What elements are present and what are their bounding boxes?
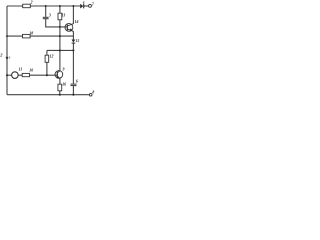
wire transistor-19 emitter to resistor-16 (59, 78, 61, 84)
wire diode-15 to capacitor-17 (72, 43, 74, 83)
wire left rail (6, 6, 8, 95)
input arrow on left rail (6, 57, 9, 60)
wire row2 rail (7, 35, 73, 37)
svg-text:15: 15 (76, 39, 80, 43)
svg-text:9: 9 (63, 67, 65, 71)
wire resistor-13 column from top rail down to transistor-19 collector (59, 6, 61, 71)
junction mid row / emitter column (72, 49, 74, 51)
capacitor 17 plates (71, 84, 77, 86)
capacitor 3 plates (43, 17, 49, 18)
wire capacitor-3 branch top lead (45, 6, 47, 17)
wire mid feedback row (47, 49, 74, 51)
svg-text:14: 14 (75, 20, 79, 24)
junction base wire / resistor 13 column (59, 26, 61, 28)
wire resistor-12 top stub (46, 50, 48, 55)
svg-text:10: 10 (29, 69, 33, 73)
wire transistor-14 emitter to diode-15 (72, 31, 74, 39)
transistor 19 emitter arrow (57, 75, 60, 78)
junction top rail / collector 14 (72, 5, 74, 7)
resistor 18 (row2) (23, 34, 31, 38)
svg-text:2: 2 (0, 52, 3, 57)
svg-text:2: 2 (30, 1, 33, 5)
wire diode-4 to terminal-7 (84, 5, 89, 7)
svg-text:12: 12 (50, 55, 54, 59)
wire resistor-10 to transistor-19 base (30, 74, 58, 76)
wire transducer-11 to resistor-10 (18, 74, 22, 76)
diode 4 (80, 3, 84, 8)
wire bottom rail (7, 94, 90, 96)
terminal 8 (89, 93, 92, 96)
svg-text:8: 8 (92, 91, 94, 95)
svg-text:3: 3 (48, 14, 51, 18)
transistor 19 (55, 71, 63, 79)
terminal 7 (89, 4, 92, 7)
junction bottom rail / resistor 16 (59, 94, 61, 96)
resistor 12 (45, 55, 49, 62)
wire capacitor-3 bottom lead and base wire to transistor-14 (46, 19, 68, 27)
wire transistor-14 collector to top rail (72, 6, 74, 24)
svg-text:16: 16 (62, 82, 66, 86)
svg-text:1: 1 (9, 55, 11, 59)
wire resistor-12 bottom stub (46, 62, 48, 75)
wire input stub from left rail to transducer-11 (7, 74, 12, 76)
junction left rail / row2 (6, 35, 8, 37)
wire capacitor-17 to bottom rail (72, 86, 74, 95)
wire top supply rail (7, 5, 80, 7)
resistor 10 (22, 73, 29, 76)
transistor 14 (65, 23, 73, 31)
svg-text:18: 18 (29, 31, 33, 35)
resistor 2 (top) (23, 4, 31, 8)
junction row2 / resistor 13 column (59, 35, 61, 37)
svg-text:4: 4 (82, 0, 85, 4)
diode 15 (72, 40, 76, 44)
svg-text:13: 13 (62, 13, 66, 17)
junction mid row / resistor 13 column (59, 49, 61, 51)
junction top rail / capacitor 3 (45, 5, 47, 7)
svg-text:11: 11 (19, 68, 23, 72)
transducer 11 (input circle) (12, 72, 19, 79)
transistor 14 emitter arrow (70, 28, 73, 31)
junction top rail / resistor 13 (59, 5, 61, 7)
junction base wire / resistor 12 stub (46, 74, 48, 76)
svg-text:6: 6 (76, 80, 78, 84)
resistor 16 (58, 84, 62, 91)
junction left rail / input wire (6, 74, 8, 76)
svg-text:7: 7 (92, 3, 95, 7)
wire resistor-16 to bottom rail (59, 91, 61, 95)
resistor 13 (58, 13, 62, 20)
junction bottom rail / capacitor 17 (72, 94, 74, 96)
